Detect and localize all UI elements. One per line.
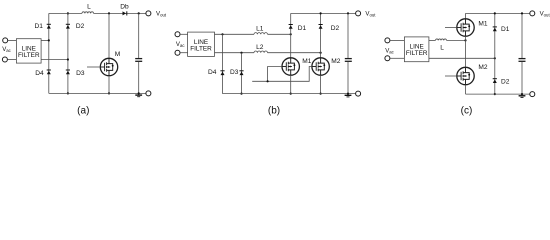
svg-text:Vout: Vout: [156, 10, 167, 17]
svg-text:D2: D2: [76, 23, 85, 30]
ground (c): [519, 96, 526, 98]
wire top rail (c): [466, 12, 530, 14]
svg-text:M: M: [115, 51, 121, 58]
svg-text:L1: L1: [256, 26, 264, 33]
svg-text:D4: D4: [208, 69, 217, 76]
wire cap column top (b): [347, 13, 349, 58]
svg-text:D2: D2: [331, 25, 340, 32]
mosfet M1 (b): [282, 58, 299, 75]
terminal return (a): [146, 91, 151, 96]
wire top rail (b): [291, 12, 356, 14]
junction top rail D2 (a): [67, 12, 69, 14]
line filter box (a): [16, 39, 41, 63]
svg-text:D1: D1: [501, 26, 510, 33]
svg-text:D1: D1: [34, 23, 43, 30]
svg-text:FILTER: FILTER: [18, 52, 40, 59]
diode D3 (b): [239, 70, 243, 75]
svg-text:D3: D3: [230, 69, 239, 76]
junction bottom rail D3 (a): [67, 92, 69, 94]
inductor L1 (b): [254, 33, 268, 35]
wire filter to node2 (a): [41, 59, 68, 61]
junction D2 top (b): [320, 12, 322, 14]
junction gate net (b): [267, 80, 269, 82]
wire mosfet source (a): [108, 76, 110, 94]
mosfet M2 (c): [457, 67, 474, 84]
wire M2 source (b): [320, 75, 322, 93]
svg-text:L2: L2: [256, 44, 264, 51]
junction M1 source (b): [290, 93, 292, 95]
wire D leg column (c): [494, 13, 496, 94]
wire filter to node1 (a): [41, 39, 49, 41]
wire cap column top (a): [138, 13, 140, 58]
wire input bottom to filter (c): [390, 57, 404, 59]
wire leg2 upper column (b): [320, 13, 322, 57]
wire cap column top (c): [521, 13, 523, 58]
ground (b): [345, 95, 352, 97]
svg-text:Vac: Vac: [176, 41, 185, 48]
wire D4 column (b): [222, 34, 224, 93]
wire AC line2 (b): [215, 52, 255, 54]
svg-text:D1: D1: [298, 25, 307, 32]
junction cap bottom (a): [138, 92, 140, 94]
capacitor Cout (c): [519, 58, 526, 60]
diode D1 (b): [289, 24, 293, 29]
diode D2 (b): [319, 24, 323, 29]
svg-text:L: L: [440, 44, 444, 51]
wire M1 source to M2 drain (c): [465, 36, 467, 67]
mosfet M1 (c): [457, 19, 474, 36]
node AC2 junction (a): [67, 58, 69, 60]
svg-text:Vout: Vout: [540, 10, 550, 17]
diode D4 (a): [47, 70, 51, 75]
terminal Vout (b): [356, 11, 361, 16]
mosfet M2 (b): [312, 58, 329, 75]
inductor L (c): [436, 39, 447, 40]
wire input bottom to filter (a): [8, 59, 17, 61]
junction cap top (b): [347, 12, 349, 14]
junction drain tap (a): [108, 12, 110, 14]
wire inductor to half bridge (c): [447, 39, 466, 41]
svg-text:Db: Db: [120, 4, 129, 11]
svg-text:FILTER: FILTER: [406, 50, 428, 57]
wire cap column bottom (a): [138, 62, 140, 94]
mosfet M (a): [100, 58, 117, 75]
wire gate stub M2 (c): [445, 75, 457, 77]
diode D1 (c): [493, 26, 497, 31]
svg-text:M2: M2: [478, 64, 487, 71]
node AC1 junction (a): [48, 39, 50, 41]
junction cap top (c): [521, 12, 523, 14]
terminal Vac bottom (c): [385, 56, 390, 61]
svg-text:M1: M1: [478, 20, 487, 27]
svg-text:(b): (b): [268, 105, 280, 116]
capacitor Cout (b): [345, 58, 352, 60]
wire gate stub M1 (c): [445, 27, 457, 29]
svg-text:Vac: Vac: [385, 47, 394, 54]
capacitor Cout (a): [135, 58, 142, 60]
junction D4 cathode (b): [221, 33, 223, 35]
wire D3 column (b): [241, 53, 243, 94]
ground (a): [135, 95, 142, 97]
terminal Vout (a): [146, 11, 151, 16]
junction L1 to leg1 (b): [290, 33, 292, 35]
svg-text:Vout: Vout: [365, 10, 376, 17]
diode D2 (c): [493, 78, 497, 83]
diode D3 (a): [66, 70, 70, 75]
junction cap bottom (c): [521, 93, 523, 95]
junction cap bottom (b): [347, 93, 349, 95]
wire AC line2 right (b): [268, 52, 321, 54]
svg-text:M1: M1: [302, 58, 311, 65]
junction inductor to leg (c): [464, 39, 466, 41]
junction D leg bottom (c): [494, 93, 496, 95]
wire filter to inductor (c): [429, 39, 436, 41]
junction D leg top (c): [494, 12, 496, 14]
wire input top to filter (b): [180, 33, 188, 35]
wire cap column bottom (b): [347, 62, 349, 94]
svg-text:(c): (c): [461, 105, 473, 116]
svg-text:D4: D4: [35, 70, 44, 77]
terminal Vac top (c): [385, 38, 390, 43]
junction output node (a): [138, 12, 140, 14]
wire AC line1 right (b): [268, 33, 291, 35]
svg-text:FILTER: FILTER: [190, 45, 212, 52]
terminal Vac top (a): [3, 38, 8, 43]
junction M2 source (b): [320, 93, 322, 95]
diode Db (a): [123, 11, 128, 15]
svg-text:L: L: [87, 4, 91, 11]
terminal Vac bottom (a): [2, 57, 7, 62]
inductor L2 (b): [254, 51, 268, 53]
wire input top to filter (a): [8, 39, 17, 41]
wire right bridge column (a): [67, 13, 69, 93]
wire bottom rail (b): [223, 93, 356, 95]
wire top rail segment 2 (a): [94, 12, 146, 14]
wire left bridge column (a): [48, 13, 50, 93]
wire top rail segment 1 (a): [49, 12, 82, 14]
svg-text:Vac: Vac: [2, 46, 11, 53]
wire M1 source (b): [290, 75, 292, 93]
wire M2 source (c): [465, 85, 467, 94]
wire AC line1 left (b): [215, 33, 255, 35]
svg-text:(a): (a): [77, 105, 89, 116]
terminal Vac bottom (b): [175, 50, 180, 55]
inductor L (a): [82, 12, 94, 14]
diode D4 (b): [220, 70, 224, 75]
junction AC2 to D midpoint (c): [494, 57, 496, 59]
wire cap column bottom (c): [521, 62, 523, 94]
wire bottom rail (a): [49, 92, 146, 94]
junction source bottom (a): [108, 92, 110, 94]
wire AC line2 to D leg (c): [429, 57, 495, 59]
terminal return (c): [530, 92, 535, 97]
diode D1 (a): [47, 24, 51, 29]
terminal Vout (c): [530, 11, 535, 16]
line filter box (c): [404, 37, 429, 62]
wire mosfet drain (a): [108, 13, 110, 58]
svg-text:D3: D3: [76, 70, 85, 77]
junction D3 cathode (b): [240, 52, 242, 54]
wire leg1 upper column (b): [290, 13, 292, 57]
diode D2 (a): [66, 24, 70, 29]
wire gate stub M (a): [87, 66, 100, 68]
svg-text:D2: D2: [501, 78, 510, 85]
wire input bottom to filter (b): [180, 52, 188, 54]
wire gate net (b): [252, 67, 312, 82]
wire bottom rail (c): [466, 93, 530, 95]
wire input top to filter (c): [390, 39, 404, 41]
line filter box (b): [188, 32, 215, 56]
terminal return (b): [356, 91, 361, 96]
junction D3 bottom (b): [240, 93, 242, 95]
junction L2 to leg2 (b): [320, 52, 322, 54]
wire M1 drain (c): [465, 13, 467, 18]
terminal Vac top (b): [175, 32, 180, 37]
svg-text:M2: M2: [331, 58, 340, 65]
